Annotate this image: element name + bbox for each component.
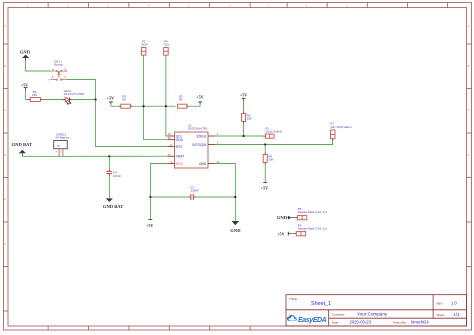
wire GND to P5: [293, 217, 295, 219]
wire +5V to R5: [243, 101, 245, 112]
ground GND BAT (left net flag): [12, 142, 32, 156]
connector P1 1Hz SqW Alarm: [330, 122, 352, 141]
wire R5 to 32KHz rail: [243, 124, 245, 136]
svg-text:Company:: Company:: [332, 312, 345, 316]
svg-text:VCC: VCC: [176, 162, 184, 166]
pushbutton KEY1: [48, 59, 67, 80]
svg-text:INT/SQW: INT/SQW: [192, 143, 207, 147]
power +5V (net flag at P6): [277, 231, 290, 236]
svg-text:9K: 9K: [122, 97, 126, 101]
capacitor C3: [188, 185, 199, 200]
svg-text:100nF: 100nF: [113, 174, 121, 178]
wire KEY1 pin2 to LED node: [67, 80, 96, 100]
junction 32KHz/R5: [243, 135, 245, 137]
connector P5 header: [295, 207, 327, 220]
ground GND BAT (bottom net flag): [103, 198, 123, 209]
svg-text:Header-Male-2.54_1x1: Header-Male-2.54_1x1: [298, 210, 328, 214]
power +5V (below R4, inverted): [261, 183, 268, 191]
wire +5V to R3: [111, 104, 119, 106]
wire 32KHz pin to P2: [215, 135, 263, 137]
resistor R2: [177, 94, 189, 108]
resistor R6: [28, 90, 42, 101]
wire LED1 to node: [72, 99, 96, 101]
svg-text:15-21/VYC/TR8: 15-21/VYC/TR8: [64, 92, 85, 96]
svg-text:SDA: SDA: [176, 138, 184, 142]
wire GND BAT to battery / VBAT: [22, 155, 167, 157]
wire INT/SQW rail: [215, 141, 332, 145]
svg-text:Header-Male-2.54_1x1: Header-Male-2.54_1x1: [298, 227, 328, 231]
connector P6 header: [294, 224, 327, 236]
wire C4 down: [108, 156, 110, 169]
svg-text:Sheet:: Sheet:: [437, 313, 446, 317]
svg-text:Button: Button: [54, 63, 63, 67]
ground GND (top left net flag): [20, 50, 31, 61]
resistor R4: [263, 152, 273, 164]
junction INT/R4: [264, 143, 266, 145]
power +5V (right of R2): [196, 94, 203, 104]
svg-text:+5V: +5V: [107, 95, 114, 100]
svg-text:+5V: +5V: [277, 231, 284, 236]
battery CARD1: [54, 133, 70, 157]
junction VBAT / C4: [108, 155, 110, 157]
wire R6 to LED1: [42, 99, 65, 101]
power +5V (for R3): [107, 95, 114, 104]
svg-text:100nF: 100nF: [191, 189, 199, 193]
svg-text:RST: RST: [176, 145, 183, 149]
svg-text:13: 13: [216, 160, 220, 164]
svg-text:D: D: [468, 154, 470, 157]
wire R2 to +5V: [189, 104, 200, 106]
junction VCC node: [149, 196, 151, 198]
svg-text:EasyEDA: EasyEDA: [298, 317, 327, 324]
LED LED1: [63, 89, 84, 104]
svg-text:GND BAT: GND BAT: [12, 142, 32, 147]
svg-text:Clock 32kHz: Clock 32kHz: [265, 130, 282, 134]
svg-text:SCL: SCL: [164, 42, 170, 46]
title block (decorative): [286, 295, 467, 326]
wire P3 to SDA pin: [144, 55, 168, 140]
svg-text:+5V: +5V: [146, 223, 153, 228]
svg-text:3V Battery: 3V Battery: [55, 136, 70, 140]
connector P4 SCL: [164, 39, 170, 55]
junction LED/KEY node: [95, 98, 97, 100]
svg-text:14: 14: [168, 152, 172, 156]
connector P3 SDA: [141, 39, 147, 55]
wire VCC to C3 node: [150, 164, 188, 197]
svg-text:180: 180: [32, 93, 37, 97]
power +5V (left, for R6): [21, 83, 28, 91]
svg-text:+5V: +5V: [196, 94, 203, 99]
wire P4 to SCL pin: [166, 55, 167, 136]
svg-text:GND: GND: [277, 215, 288, 220]
svg-text:TITLE:: TITLE:: [289, 297, 298, 301]
wire R4 to +5V: [264, 165, 266, 183]
wire node down to RST: [96, 100, 168, 147]
svg-text:Your Company: Your Company: [357, 312, 388, 317]
svg-text:Drawn By:: Drawn By:: [393, 320, 407, 324]
svg-text:+5V: +5V: [240, 93, 247, 98]
resistor R5: [242, 111, 252, 123]
svg-text:VBAT: VBAT: [176, 155, 184, 159]
junction C3/GND: [234, 196, 236, 198]
wire R3 to SDA/SCL rail: [132, 105, 175, 107]
IC U1 DS3231M RTC: [167, 124, 220, 168]
ground GND (net flag at P5): [277, 215, 294, 220]
junction SCL pullup: [165, 105, 167, 107]
svg-text:Date:: Date:: [332, 320, 339, 324]
wire C3 to GND rail: [196, 196, 235, 198]
svg-text:REV:: REV:: [437, 301, 444, 305]
svg-text:D: D: [5, 154, 7, 157]
power +5V (above R5): [240, 93, 247, 101]
svg-text:10K: 10K: [268, 158, 273, 162]
wire R4 top: [264, 145, 266, 153]
ground GND (below U1): [230, 221, 241, 233]
svg-text:3V: 3V: [57, 145, 60, 148]
svg-text:1.0: 1.0: [451, 301, 457, 306]
svg-text:9K: 9K: [179, 97, 183, 101]
svg-text:15: 15: [168, 136, 172, 140]
svg-text:GND: GND: [199, 162, 207, 166]
svg-text:10K: 10K: [247, 117, 252, 121]
svg-text:2020-03-23: 2020-03-23: [350, 320, 372, 325]
svg-text:+5V: +5V: [21, 83, 28, 88]
wire GND pin 13 down: [215, 164, 235, 221]
connector P2 Clock 32kHz: [263, 127, 282, 139]
svg-text:lonschi24: lonschi24: [411, 320, 429, 325]
svg-text:C: C: [5, 109, 7, 112]
power +5V (below VCC node, inverted): [146, 197, 153, 228]
svg-text:GND BAT: GND BAT: [103, 204, 123, 209]
svg-text:C: C: [468, 109, 470, 112]
svg-text:Sheet_1: Sheet_1: [311, 301, 331, 307]
junction SDA pullup: [143, 105, 145, 107]
wire +5V to R6: [26, 91, 29, 100]
svg-text:SDA: SDA: [141, 42, 147, 46]
svg-text:+5V: +5V: [261, 186, 268, 191]
wire +5V to P6: [290, 233, 294, 235]
svg-text:GND: GND: [230, 228, 241, 233]
resistor R3: [119, 94, 133, 108]
svg-text:1Hz SqW Alarm: 1Hz SqW Alarm: [330, 125, 352, 129]
svg-text:32KHz: 32KHz: [196, 134, 206, 138]
svg-text:DS3231M+TRL: DS3231M+TRL: [188, 127, 208, 131]
capacitor C4: [106, 170, 121, 178]
svg-text:1/1: 1/1: [454, 312, 460, 317]
svg-text:GND: GND: [20, 50, 31, 55]
wire C4 to GND BAT: [108, 176, 110, 199]
wire GND to KEY1 pin4: [26, 61, 51, 71]
